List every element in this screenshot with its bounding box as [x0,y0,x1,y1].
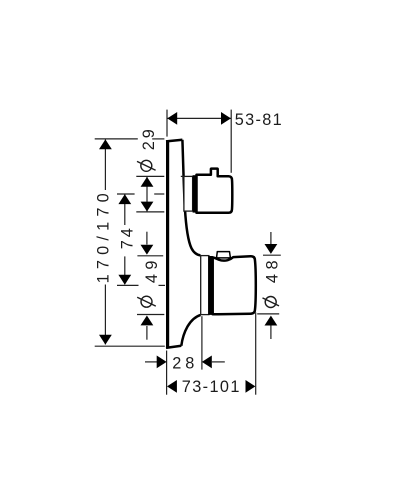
upper control sleeve [184,176,193,211]
escutcheon plate bottom edge [166,346,181,348]
dimension 28 left extension line [166,351,168,395]
dimension 170/170 bottom arrow [99,335,112,345]
dimension 53-81 right arrow [221,112,231,125]
dimension dia49 lower line [146,326,148,340]
dimension dia48 bottom tick [257,313,279,315]
dimension dia48 upper line [270,232,272,244]
upper control divider bar [193,175,197,212]
dimension dia49 lower arrow [141,316,154,326]
lower control handle body [213,256,256,314]
dimension dia48 diameter symbol [263,297,280,308]
svg-text:28: 28 [172,355,198,373]
dimension 170/170 line [104,140,106,345]
dimension dia49 top tick [137,255,163,257]
svg-text:170/170: 170/170 [94,188,112,283]
lower control button tab [217,252,231,258]
dimension dia48 lower line [270,326,272,340]
dimension 53-81 left arrow [167,112,177,125]
svg-text:53-81: 53-81 [235,111,283,129]
dimension 74 upper center tick [117,193,164,195]
dimension 74 line [124,194,126,284]
dimension 74 lower center tick [117,284,165,286]
dimension 53-81 right extension line [230,110,232,173]
dimension 170/170 top arrow [99,139,112,149]
dimension dia29 bottom arrow [141,202,154,212]
svg-text:29: 29 [140,126,158,150]
dimension 73-101 right extension line [255,313,257,395]
dimension 170/170 top extension line [95,138,165,140]
dimension 28 left arrow [157,356,167,369]
dimension 73-101 left arrow [167,380,177,393]
svg-text:74: 74 [119,225,137,249]
dimension 53-81 left extension line [166,110,168,137]
dimension dia29 bottom extension line [136,211,164,213]
dimension 170/170 bottom extension line [95,345,165,347]
dimension dia49 upper line [146,232,148,245]
lower control divider bar [208,256,213,315]
lower control sleeve [201,256,209,315]
escutcheon plate top edge [166,140,182,142]
dimension dia29 diameter symbol [137,160,156,171]
upper control handle body [197,169,233,213]
svg-text:49: 49 [143,256,161,283]
dimension 28 left arrow tail [145,361,157,363]
dimension dia48 top tick [263,254,281,256]
dimension dia49 upper arrow [141,245,154,255]
dimension dia29 top extension stub [181,175,184,177]
dimension dia29 top arrow [141,177,154,187]
dimension dia48 upper arrow [265,244,278,254]
dimension 73-101 right arrow [246,380,256,393]
dimension 28 right arrow tail [212,361,225,363]
svg-text:73-101: 73-101 [182,378,241,396]
dimension dia29 top extension line [136,175,164,177]
dimension 28 right arrow [202,356,212,369]
dimension 74 bottom arrow [118,275,131,285]
dimension 53-81 line [167,117,231,119]
dimension dia48 lower arrow [265,316,278,326]
dimension dia29 line [146,177,148,211]
dimension 28 right extension line [201,316,203,369]
dimension dia49 bottom tick [137,314,164,316]
svg-text:48: 48 [263,256,281,283]
escutcheon plate right profile lower curve [181,315,200,346]
dimension dia49 diameter symbol [137,296,156,307]
escutcheon plate right profile upper curve [182,140,200,256]
escutcheon plate left edge [166,140,169,348]
dimension 74 top arrow [118,194,131,204]
